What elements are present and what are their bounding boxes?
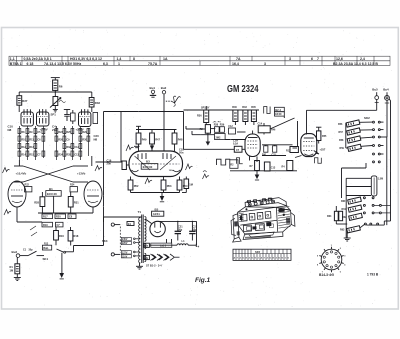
svg-text:12,6: 12,6 (336, 57, 343, 61)
heater line f5a (144, 239, 177, 248)
svg-text:R29: R29 (82, 131, 87, 134)
ground under R1 (14, 278, 21, 281)
svg-text:AZ41: AZ41 (153, 212, 160, 216)
svg-text:B1: B1 (49, 187, 53, 191)
connector Bu5 (372, 88, 378, 111)
resistor R24 (70, 184, 77, 192)
svg-text:B2,3A 23,8A 13,4 6,3 12,5 B: B2,3A 23,8A 13,4 6,3 12,5 B (333, 62, 378, 66)
svg-text:C15: C15 (272, 154, 277, 157)
svg-text:R11: R11 (29, 138, 34, 141)
svg-text:Bu1: Bu1 (150, 86, 156, 90)
svg-text:30p: 30p (29, 249, 34, 252)
svg-text:R10: R10 (21, 138, 26, 141)
tube socket B14 (317, 245, 346, 277)
svg-text:1 793 B: 1 793 B (367, 273, 379, 277)
svg-text:B75A 1: B75A 1 (10, 62, 22, 66)
capacitor C22 (189, 221, 197, 241)
svg-text:B&L: B&L (43, 247, 49, 250)
resistor pair R64 R65 (327, 206, 343, 224)
svg-text:R54: R54 (183, 184, 188, 188)
svg-text:f5b: f5b (145, 257, 149, 260)
svg-text:SP1·SY: SP1·SY (201, 106, 210, 109)
sine probe symbol (166, 96, 181, 106)
svg-text:8: 8 (133, 57, 135, 61)
resistor R51 label (182, 177, 193, 193)
resistor R42 (286, 147, 298, 153)
svg-text:+: + (197, 245, 199, 249)
parts/values table header strip (9, 56, 390, 65)
wire bottom links (336, 221, 390, 238)
capacitor C6 (64, 110, 70, 122)
svg-text:1,5M: 1,5M (378, 179, 383, 181)
resistor R1 (10, 257, 20, 277)
wire lower rung a (346, 178, 371, 238)
svg-text:EF40: EF40 (275, 112, 282, 116)
switch box SK1a (42, 245, 51, 250)
svg-text:3: 3 (289, 57, 291, 61)
waveform check below tube (145, 178, 152, 184)
svg-text:R23: R23 (58, 131, 63, 134)
label C10 N8 (8, 125, 14, 133)
resistor group rows left (18, 126, 45, 160)
svg-text:Bu2: Bu2 (161, 86, 167, 90)
svg-text:R40: R40 (232, 106, 237, 109)
capacitor C7 (56, 222, 64, 227)
svg-text:6: 6 (311, 57, 313, 61)
svg-text:75,7A: 75,7A (148, 62, 158, 66)
wire grid bus (186, 126, 246, 140)
svg-text:R64: R64 (327, 215, 332, 218)
resistor group rows right (55, 126, 90, 160)
svg-text:20n: 20n (179, 151, 184, 155)
svg-text:SK1: SK1 (43, 257, 49, 261)
voltage tap label 127V (121, 251, 131, 255)
resistor R33 (89, 98, 100, 113)
svg-text:R22: R22 (25, 184, 30, 187)
wire resistor bus upper (346, 123, 348, 148)
heater plug chevrons (151, 254, 180, 260)
svg-text:R17: R17 (43, 216, 48, 219)
resistor R52 (128, 177, 139, 193)
wire arrow from socket (314, 151, 319, 154)
svg-text:2M2: 2M2 (216, 136, 221, 139)
svg-text:R57: R57 (339, 131, 344, 134)
resistor R18 (68, 227, 79, 241)
tube B2 ratings label (233, 139, 238, 145)
wire diagonal to tube (270, 118, 295, 129)
potentiometer R2 box (230, 160, 238, 169)
resistor R20 (55, 214, 66, 219)
svg-text:1,4: 1,4 (117, 57, 122, 61)
svg-text:ECC40: ECC40 (143, 165, 153, 169)
waveform marks left (203, 171, 210, 179)
svg-text:R46: R46 (271, 129, 276, 132)
resistor R47 (150, 130, 161, 152)
mains lead upper (111, 223, 120, 226)
svg-text:0,3A: 0,3A (233, 142, 238, 145)
capacitor C16 (96, 112, 130, 170)
connector Bu1 (150, 86, 156, 95)
resistor R46 (271, 129, 276, 132)
svg-text:R6: R6 (59, 85, 63, 89)
ground under transformer (136, 263, 143, 269)
resistor R57 (347, 128, 361, 135)
svg-text:SP1: SP1 (51, 113, 57, 117)
tap contacts (133, 238, 140, 257)
tube label B1 ECC40 (46, 187, 61, 196)
tube B6 socket (295, 134, 317, 158)
wire R59 to contact (361, 145, 373, 148)
svg-text:GM 2324: GM 2324 (227, 84, 259, 95)
chassis assembly perspective view (230, 197, 296, 242)
capacitor C18 label (179, 148, 184, 155)
svg-text:+13Vb: +13Vb (77, 172, 86, 176)
ground under SP1 (53, 106, 58, 113)
switch SK2 upper contacts (373, 121, 387, 163)
svg-text:R13: R13 (29, 146, 34, 149)
ground under Bu1 (150, 95, 156, 97)
svg-text:16,4: 16,4 (232, 62, 239, 66)
rectifier label B5 AZ41 (152, 208, 164, 217)
capacitor C8 (68, 214, 76, 219)
svg-text:R19: R19 (43, 224, 48, 227)
svg-text:Bu5: Bu5 (372, 88, 378, 92)
svg-text:R20: R20 (56, 216, 61, 219)
waveform check mark lower (4, 210, 11, 216)
svg-text:1M: 1M (189, 183, 193, 187)
tube can B1a (21, 109, 33, 126)
resistor R49 (136, 130, 147, 152)
svg-text:R38: R38 (214, 124, 219, 127)
resistor R19 (42, 222, 53, 227)
mains lead lower (111, 253, 120, 256)
svg-text:R63: R63 (340, 228, 345, 231)
transformer T1 core (142, 215, 144, 264)
svg-text:R60: R60 (341, 200, 346, 203)
label C4 27n (52, 125, 57, 133)
svg-text:R43: R43 (242, 106, 247, 109)
resistor R59 (348, 144, 362, 151)
wire cross coupling (14, 156, 92, 213)
svg-text:R34: R34 (58, 153, 63, 156)
svg-text:R45: R45 (251, 106, 256, 109)
svg-text:R36: R36 (197, 115, 202, 118)
delay bar component (371, 176, 383, 196)
table row 1 values (10, 57, 365, 61)
resistor R4 (282, 161, 293, 171)
svg-text:R26: R26 (58, 138, 63, 141)
ground arrow into tube (150, 144, 154, 150)
wire anode bus (262, 145, 293, 146)
svg-text:C12: C12 (74, 146, 79, 149)
svg-text:R35: R35 (66, 153, 71, 156)
svg-text:1,1: 1,1 (10, 57, 15, 61)
svg-text:R24: R24 (70, 184, 75, 187)
svg-text:C13: C13 (271, 167, 276, 170)
svg-text:245V: 245V (122, 238, 128, 241)
ground right block (344, 238, 351, 241)
tube can B2a (79, 109, 91, 127)
resistor R28 (34, 192, 45, 213)
svg-text:N8: N8 (94, 137, 98, 141)
switch SK2 lower contacts (363, 197, 390, 225)
resistor R41 (262, 146, 268, 157)
transformer T1 heater winding b (145, 253, 146, 261)
resistor R39 (220, 124, 225, 133)
svg-text:R31: R31 (74, 201, 79, 205)
svg-text:0,5A 2x0,3A 0,8 1: 0,5A 2x0,3A 0,8 1 (24, 57, 52, 61)
svg-text:R39: R39 (220, 124, 225, 127)
capacitor C12 (228, 125, 235, 134)
wire grid long (184, 148, 246, 150)
voltage tap label 220V (121, 241, 131, 245)
resistor R36 (197, 106, 209, 125)
svg-text:R47: R47 (155, 138, 160, 142)
heater line f5b (144, 255, 149, 259)
svg-text:127V: 127V (122, 252, 128, 254)
svg-text:R30: R30 (82, 138, 87, 141)
svg-text:Fig.1: Fig.1 (195, 277, 211, 284)
svg-text:R53: R53 (167, 184, 172, 188)
resistor R45 (251, 106, 256, 125)
svg-text:T1: T1 (138, 210, 142, 214)
svg-text:20n: 20n (107, 162, 112, 166)
svg-text:R27: R27 (22, 99, 28, 103)
resistor R16 (54, 227, 65, 240)
svg-text:R59: R59 (340, 147, 345, 150)
waveform check above tube (126, 145, 134, 151)
pulse bracket symbol (237, 158, 243, 164)
svg-text:7: 7 (317, 57, 319, 61)
resistor R6 (51, 78, 63, 91)
svg-text:3: 3 (264, 62, 266, 66)
capacitor C20 (93, 113, 99, 142)
capacitor top of R49 (136, 126, 141, 129)
terminal strip SK5 (233, 249, 291, 260)
svg-text:R12: R12 (286, 150, 291, 153)
resistor R56 (346, 120, 360, 127)
waveform check right of tube (186, 164, 193, 170)
wire R58 to contact (361, 136, 373, 139)
svg-text:N8: N8 (8, 128, 12, 132)
svg-text:1: 1 (118, 62, 120, 66)
ground arrow (59, 273, 64, 278)
voltage tap label 110V (121, 255, 131, 259)
svg-text:R25: R25 (66, 131, 71, 134)
resistor R63 (347, 226, 361, 233)
svg-text:110V: 110V (122, 256, 128, 258)
svg-text:Bu3: Bu3 (12, 250, 18, 254)
wire R56 to contact (360, 121, 373, 123)
resistor R38 (214, 124, 219, 133)
resistor R58 (347, 136, 361, 143)
resistor R53 (161, 177, 172, 193)
triode B1 right (84, 181, 102, 213)
resistor R43 (242, 106, 248, 125)
svg-text:R61: R61 (342, 208, 347, 211)
tube B2 envelope (245, 131, 260, 163)
svg-text:R18: R18 (74, 234, 79, 238)
svg-text:R12: R12 (21, 146, 26, 149)
switch SK1 arm (56, 240, 104, 253)
choke L1 (177, 221, 197, 245)
resistor R62 (349, 213, 363, 220)
svg-text:C13: C13 (74, 153, 79, 156)
svg-text:+10,4Vb: +10,4Vb (16, 172, 27, 176)
svg-text:R1: R1 (10, 265, 14, 269)
wire primary top lead (104, 217, 142, 246)
svg-text:La1 2: La1 2 (160, 244, 167, 247)
connector Bu2 (161, 86, 167, 151)
svg-text:R33: R33 (95, 101, 101, 105)
triode B1 left (8, 181, 26, 222)
svg-text:ECC40: ECC40 (47, 192, 57, 196)
wire x341 branch (342, 163, 367, 198)
svg-text:R15: R15 (29, 153, 34, 156)
svg-text:R41: R41 (262, 154, 267, 157)
svg-text:R14: R14 (21, 153, 26, 156)
svg-text:Bu4: Bu4 (383, 88, 389, 92)
svg-text:R49: R49 (142, 138, 147, 142)
pulse symbol below socket (315, 158, 322, 164)
svg-text:R48: R48 (178, 138, 183, 142)
wire lower bus (17, 213, 93, 222)
voltage tap label 245V (121, 237, 131, 241)
capacitor C3 (71, 110, 76, 124)
wire top rail (19, 90, 92, 97)
svg-text:SK5: SK5 (255, 250, 261, 254)
table row 2 values (10, 62, 379, 66)
svg-text:R52: R52 (134, 184, 139, 188)
rectifier tube B5 (145, 220, 166, 237)
tube can B1b (37, 109, 49, 126)
capacitor C21 (159, 221, 197, 241)
resistor R55 (316, 127, 327, 143)
resistor R61 (348, 205, 362, 212)
resistor R40 (232, 106, 238, 125)
resistor R60 (348, 197, 362, 204)
waveform check mark left (3, 168, 10, 174)
svg-text:B14-3·4·5: B14-3·4·5 (319, 273, 334, 277)
tube label B3 ECC40 (141, 160, 158, 170)
svg-text:R16: R16 (59, 234, 64, 238)
ground arrow under R2 (206, 142, 211, 146)
switch box SK4 (215, 134, 226, 140)
resistor R37 (200, 125, 216, 142)
switch link SK3 dashed (119, 227, 121, 253)
ground arrow stage (255, 175, 260, 180)
svg-text:SK3: SK3 (102, 239, 108, 243)
svg-text:B3: B3 (146, 160, 150, 164)
resistor R48 (172, 130, 183, 152)
resistor R31 (68, 192, 79, 213)
svg-text:1A: 1A (163, 57, 168, 61)
wire grid rail (104, 111, 184, 222)
svg-text:C14: C14 (258, 123, 263, 126)
transformer T1 secondary winding (145, 217, 147, 242)
tube label B2-4 EF40 (275, 107, 285, 116)
svg-text:7A: 7A (236, 57, 241, 61)
svg-text:SK2: SK2 (364, 116, 370, 120)
fuse E1 (127, 222, 134, 226)
pulse symbol wide (217, 159, 231, 165)
capacitor C15 (272, 146, 277, 157)
square wave symbol (264, 107, 270, 114)
waveform check mark right (95, 166, 102, 172)
resistor R22 (25, 184, 32, 192)
ground arrow mid (160, 196, 165, 201)
resistor R54 (177, 177, 188, 193)
potentiometer SP1 (50, 97, 66, 117)
connector Bu4 (383, 88, 390, 226)
capacitor C7b (234, 146, 242, 152)
svg-text:1M: 1M (10, 269, 14, 273)
resistor R44 (250, 161, 260, 171)
wire input rail (307, 110, 377, 134)
svg-text:+257: +257 (320, 148, 326, 152)
transformer T1 primary winding (139, 218, 141, 264)
wire to ground arrow (61, 253, 63, 273)
svg-text:7A 13,4 13,5 6,3V 50Hz: 7A 13,4 13,5 6,3V 50Hz (44, 62, 81, 66)
svg-text:S7 B1-2 · 3-4: S7 B1-2 · 3-4 (146, 264, 162, 268)
resistor R3 (264, 162, 275, 171)
svg-text:B2-4: B2-4 (275, 108, 281, 112)
connector Bu3 (12, 250, 45, 258)
svg-text:R55: R55 (322, 135, 327, 138)
capacitor C1 label (23, 249, 33, 252)
svg-text:220V: 220V (122, 243, 128, 245)
svg-text:R32: R32 (66, 146, 71, 149)
wire R57 to contact (360, 129, 373, 131)
wire anode top rail (184, 109, 260, 111)
svg-text:2,4: 2,4 (360, 57, 365, 61)
wire cathode bus lower (230, 121, 298, 175)
resistor R17 (42, 214, 53, 219)
svg-text:C12: C12 (228, 125, 233, 128)
tube B3 envelope (129, 151, 183, 177)
svg-text:6,3: 6,3 (103, 62, 108, 66)
ground stub left of tube (134, 146, 140, 147)
wire anode rail (136, 129, 177, 131)
svg-text:R58: R58 (339, 139, 344, 142)
svg-text:R28: R28 (34, 201, 39, 205)
wire from stage to socket (293, 147, 298, 149)
svg-text:6 18: 6 18 (27, 62, 34, 66)
transformer T1 heater winding a (145, 243, 146, 249)
node plus (195, 244, 197, 247)
wire scribble marks (30, 226, 37, 236)
capacitor C14 (258, 123, 271, 135)
svg-text:100n: 100n (169, 170, 175, 172)
svg-text:R56: R56 (338, 123, 343, 126)
resistor R27 (17, 96, 28, 112)
wire cathode bus (131, 193, 180, 197)
